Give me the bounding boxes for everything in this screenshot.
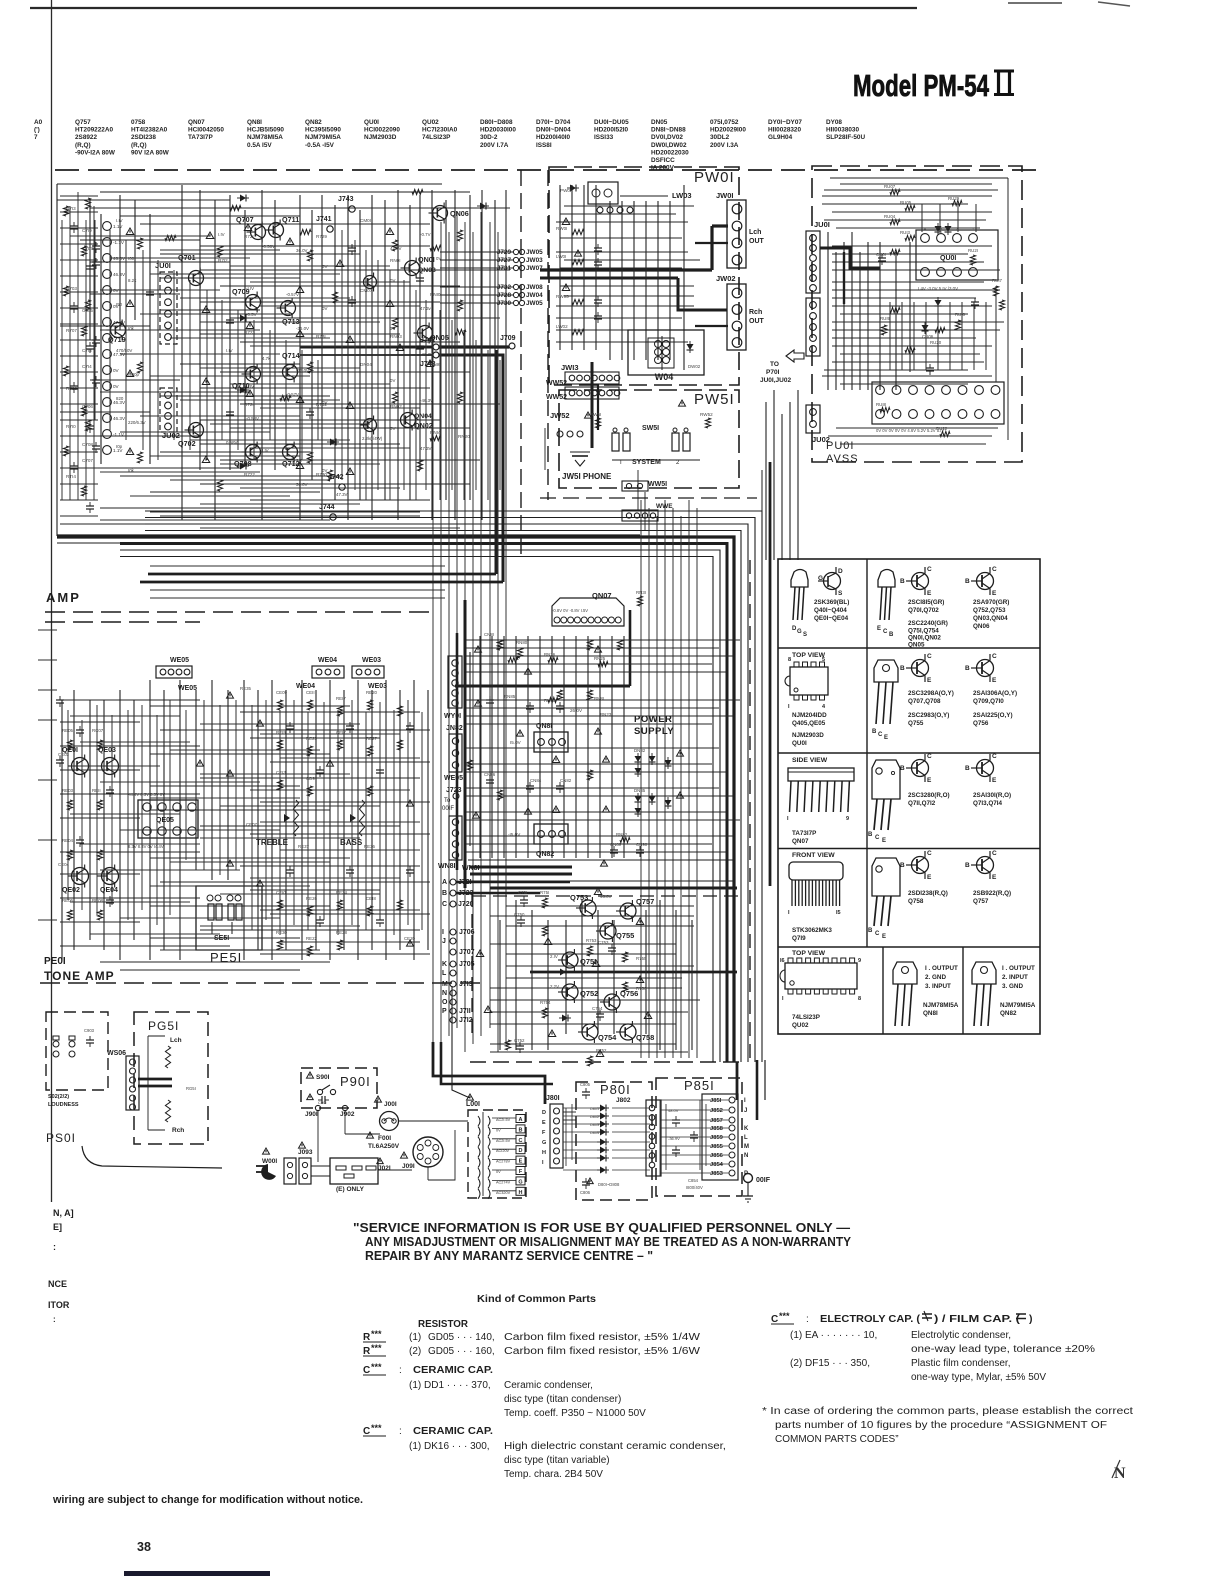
svg-text:8.3V 8.3V 0V I4.4V: 8.3V 8.3V 0V I4.4V [128, 844, 164, 849]
svg-text:C7I9: C7I9 [82, 228, 92, 233]
transistor Q709 [232, 287, 261, 313]
svg-text:Lch: Lch [749, 229, 761, 236]
connector JN82 [444, 725, 463, 782]
svg-text::: : [399, 1365, 402, 1376]
svg-text::: : [53, 1242, 56, 1252]
svg-text:RE06: RE06 [62, 898, 74, 903]
svg-text:Q719: Q719 [108, 335, 126, 344]
svg-text:90V I2A 80W: 90V I2A 80W [131, 149, 170, 156]
svg-text:Temp. chara. 2B4 50V: Temp. chara. 2B4 50V [504, 1469, 603, 1480]
plug W001 [256, 1148, 296, 1184]
table component pinouts border [778, 559, 1040, 1034]
svg-text:DW02: DW02 [688, 364, 701, 369]
svg-text:RTI4: RTI4 [66, 474, 76, 479]
svg-text:2SDI238(R,Q): 2SDI238(R,Q) [908, 890, 948, 897]
connector JW13 [561, 362, 620, 448]
svg-text:R723: R723 [244, 330, 255, 335]
svg-text:RUI9: RUI9 [880, 316, 891, 321]
connector J093 [298, 1142, 313, 1184]
connector J728 JW04 [440, 292, 543, 299]
package STK3062 module [788, 852, 843, 942]
common parts heading [477, 1293, 596, 1305]
transistor Q712 [279, 442, 300, 469]
transistor QN05 [414, 323, 449, 344]
svg-text:Q7II,Q7I2: Q7II,Q7I2 [908, 800, 936, 807]
test point J747 [420, 337, 439, 350]
svg-text:I0k: I0k [128, 326, 135, 331]
svg-text:CERAMIC CAP.: CERAMIC CAP. [413, 1364, 493, 1376]
svg-text:C: C [875, 835, 880, 841]
ordering note text [762, 1406, 1133, 1445]
svg-text:RE03: RE03 [62, 788, 74, 793]
svg-text:Lch: Lch [170, 1037, 182, 1044]
svg-text:J744: J744 [319, 504, 335, 511]
test point J742 [328, 474, 345, 490]
svg-text:J727: J727 [497, 257, 512, 264]
svg-text:NJM204IDD: NJM204IDD [792, 712, 827, 719]
svg-text:E: E [882, 934, 886, 940]
svg-text:DN04: DN04 [360, 362, 372, 367]
svg-text:C750: C750 [514, 912, 525, 917]
svg-text:47.3v: 47.3v [420, 306, 432, 311]
svg-text:S90I: S90I [316, 1074, 330, 1081]
transistor QN02 [397, 410, 433, 431]
wire PW01 interior [556, 185, 700, 370]
svg-text:Plastic film condenser,: Plastic film condenser, [911, 1358, 1011, 1369]
ic QE05 [128, 792, 198, 849]
svg-text:C7I4: C7I4 [82, 364, 92, 369]
svg-text:Q753: Q753 [570, 893, 588, 902]
svg-text:(R,Q): (R,Q) [131, 142, 147, 149]
svg-text:JU02: JU02 [812, 435, 830, 444]
svg-text:Ceramic condenser,: Ceramic condenser, [504, 1380, 593, 1391]
svg-text:E: E [882, 838, 886, 844]
svg-text:C: C [927, 850, 932, 857]
transistor QN0I [401, 255, 435, 279]
svg-text:DN05: DN05 [651, 119, 668, 126]
svg-text:one-way lead type, tolerance: one-way lead type, tolerance ±20% [911, 1344, 1095, 1355]
svg-text:LW02: LW02 [556, 324, 568, 329]
svg-text:HD20030I00: HD20030I00 [480, 127, 516, 134]
wire amp verticals dashed borders [57, 170, 548, 558]
svg-text:CEI7: CEI7 [336, 730, 346, 735]
transistor QN03 [360, 267, 436, 292]
svg-text:QN82: QN82 [1000, 1010, 1017, 1017]
svg-text:JN82: JN82 [446, 725, 463, 732]
svg-text:RN26: RN26 [544, 652, 556, 657]
svg-text:JW02: JW02 [716, 274, 736, 283]
svg-text:-0.7V: -0.7V [420, 232, 431, 237]
svg-text:0V: 0V [113, 384, 120, 389]
test point J741 [316, 216, 333, 232]
svg-text:48.0V: 48.0V [668, 1108, 679, 1113]
svg-text:B: B [519, 1127, 523, 1133]
svg-text:J02I: J02I [378, 1165, 391, 1172]
connector J727 JW03 [440, 257, 543, 264]
svg-text:one-way type, Mylar, ±5% 50V: one-way type, Mylar, ±5% 50V [911, 1372, 1046, 1383]
svg-text:B: B [900, 862, 905, 869]
svg-text:AC2I.5V: AC2I.5V [496, 1139, 511, 1143]
svg-text:A: A [519, 1117, 523, 1123]
svg-text:NCE: NCE [48, 1279, 67, 1289]
svg-text:HD200I40I0: HD200I40I0 [536, 134, 571, 141]
svg-text:QE04: QE04 [100, 887, 118, 894]
svg-text:RN03: RN03 [390, 334, 402, 339]
svg-text:HD20029I00: HD20029I00 [710, 127, 746, 134]
svg-text:B: B [889, 632, 894, 638]
svg-text:E: E [884, 735, 888, 741]
svg-text:B: B [965, 765, 970, 772]
svg-text:C: C [992, 850, 997, 857]
transistor QE04 [98, 865, 119, 895]
symbol 2SA970 [965, 566, 1009, 630]
svg-text:RN3I: RN3I [636, 590, 646, 595]
svg-text:RN20: RN20 [458, 434, 470, 439]
connector WS06 [107, 1050, 172, 1110]
svg-text:0758: 0758 [131, 119, 146, 126]
svg-text:N: N [442, 990, 447, 997]
svg-text:E: E [992, 677, 997, 684]
svg-text:Q707,Q708: Q707,Q708 [908, 698, 941, 705]
transistor Q707 [236, 215, 266, 243]
transistor Q755 [596, 920, 634, 942]
svg-text:RE24: RE24 [336, 890, 348, 895]
svg-text:R724: R724 [244, 402, 255, 407]
block P901 [301, 1068, 377, 1118]
svg-text:I0k: I0k [128, 468, 135, 473]
svg-text:0V: 0V [322, 264, 327, 269]
svg-text:DN85: DN85 [634, 788, 646, 793]
svg-text:D70I~ D704: D70I~ D704 [536, 119, 571, 126]
svg-text:0V: 0V [496, 1170, 501, 1174]
svg-text:2SA970(GR): 2SA970(GR) [973, 599, 1009, 606]
svg-text:QU0I: QU0I [940, 255, 956, 262]
svg-text:BASS: BASS [340, 838, 363, 847]
svg-text:C: C [878, 732, 883, 738]
svg-text:RE08: RE08 [92, 898, 104, 903]
svg-text:PS0I: PS0I [46, 1131, 76, 1145]
package 2SC3298 TO-220 [872, 653, 954, 741]
svg-text:AMP: AMP [46, 590, 81, 605]
svg-text:RE27: RE27 [366, 736, 378, 741]
connector J706 group [442, 929, 475, 1024]
svg-text:RW5I: RW5I [590, 412, 601, 417]
svg-text:R707: R707 [66, 328, 77, 333]
svg-text:ACI20V: ACI20V [496, 1149, 510, 1153]
svg-text:-0.5V: -0.5V [246, 312, 257, 317]
svg-text:WN8I: WN8I [438, 863, 456, 870]
svg-text:Q714: Q714 [282, 351, 300, 360]
package 2SK369 TO-92 [791, 567, 849, 638]
svg-text:G: G [818, 575, 823, 582]
svg-text:OUT: OUT [749, 238, 765, 245]
svg-text:CE09: CE09 [276, 690, 288, 695]
svg-text:5: 5 [822, 657, 825, 663]
svg-text:D: D [838, 568, 843, 575]
symbol 2SA1301 [965, 753, 1011, 807]
svg-text:QN07: QN07 [792, 838, 809, 845]
svg-text:2SAI30I(R,O): 2SAI30I(R,O) [973, 792, 1011, 799]
svg-text:CN90: CN90 [636, 842, 648, 847]
svg-text:0V: 0V [390, 326, 395, 331]
regulator QN82 [508, 806, 568, 858]
svg-text:Rch: Rch [172, 1127, 184, 1134]
svg-text:HD20022030: HD20022030 [651, 149, 689, 156]
svg-text:2.2: 2.2 [296, 458, 303, 463]
svg-text:I6: I6 [780, 958, 785, 964]
connector JU01 [155, 261, 177, 344]
svg-text:2SC2983(O,Y): 2SC2983(O,Y) [908, 712, 949, 719]
svg-text:AC278V: AC278V [496, 1160, 511, 1164]
op-amp QU01 [916, 226, 998, 291]
transistor Q753 [570, 893, 596, 919]
svg-text:Q758: Q758 [636, 1033, 654, 1042]
transistor Q758 [616, 1021, 654, 1043]
svg-text:RN23: RN23 [600, 712, 612, 717]
block P851 [656, 1078, 749, 1196]
svg-text:ANY MISADJUSTMENT OR MISALIGNM: ANY MISADJUSTMENT OR MISALIGNMENT MAY BE… [365, 1235, 852, 1249]
svg-text:QN0I,QN02: QN0I,QN02 [908, 635, 941, 642]
svg-text:J730: J730 [497, 300, 512, 307]
svg-text:QE02: QE02 [62, 887, 80, 894]
svg-text:RUI3: RUI3 [900, 230, 911, 235]
svg-text:disc type (titan variable): disc type (titan variable) [504, 1455, 610, 1466]
transistor Q701 [178, 253, 204, 289]
transistor Q711 [265, 215, 300, 241]
wire dashed top border [55, 169, 1040, 171]
svg-text:8.2k: 8.2k [128, 278, 137, 283]
svg-text:E: E [927, 677, 932, 684]
svg-text:wiring are subject to change f: wiring are subject to change for modific… [52, 1494, 363, 1506]
svg-text:***: *** [371, 1329, 382, 1339]
svg-text:PE0I: PE0I [44, 956, 66, 967]
svg-text:PU0I: PU0I [826, 440, 854, 452]
svg-text:R753: R753 [586, 938, 597, 943]
connector JW02 [716, 274, 765, 350]
transistor QE03 [98, 747, 119, 778]
package 2SC1815 TO-92 [877, 566, 948, 649]
svg-text:WE04: WE04 [318, 657, 337, 664]
svg-text:AVSS: AVSS [826, 453, 859, 465]
svg-text:J731: J731 [497, 265, 512, 272]
connector J729 JW05 [440, 249, 543, 256]
svg-text:Q757: Q757 [973, 898, 989, 905]
svg-text:J743: J743 [338, 196, 354, 203]
svg-text:CN8I: CN8I [484, 632, 494, 637]
svg-text:R752: R752 [596, 1048, 607, 1053]
svg-text:(1) EA · · · · · · · 10,: (1) EA · · · · · · · 10, [790, 1330, 877, 1341]
wire amp left column extra [60, 192, 98, 516]
pot TREBLE [256, 800, 310, 849]
svg-text:0.58V: 0.58V [226, 440, 238, 445]
svg-text:470/50V: 470/50V [116, 348, 132, 353]
connector WN81 [438, 816, 480, 872]
svg-text:CN86: CN86 [484, 772, 496, 777]
wire nested bus L [57, 511, 762, 1062]
svg-text:QN06: QN06 [973, 623, 990, 630]
svg-text:B: B [868, 928, 873, 934]
connector WE05 [156, 657, 197, 692]
svg-text:NJM79MI5A: NJM79MI5A [305, 134, 341, 141]
svg-text:38: 38 [137, 1540, 151, 1554]
svg-text:I5: I5 [836, 910, 841, 916]
svg-text:TONE AMP: TONE AMP [44, 969, 115, 983]
svg-text:8: 8 [788, 657, 791, 663]
svg-text:30DL2: 30DL2 [710, 134, 730, 141]
label PE51 [210, 950, 242, 965]
svg-text:0V: 0V [390, 378, 395, 383]
svg-text:DY08: DY08 [826, 119, 842, 126]
svg-text:WE05: WE05 [170, 657, 189, 664]
svg-text:J856: J856 [710, 1153, 724, 1159]
svg-text:JW03: JW03 [526, 257, 543, 264]
svg-text:9: 9 [858, 958, 861, 964]
svg-text:OUT: OUT [749, 318, 765, 325]
svg-text:TOP VIEW: TOP VIEW [792, 652, 826, 659]
svg-text:RW05: RW05 [556, 294, 569, 299]
svg-text:Q7I9: Q7I9 [792, 935, 806, 942]
svg-text:HCJB5I5090: HCJB5I5090 [247, 127, 284, 134]
svg-text:C754: C754 [592, 1006, 603, 1011]
svg-text:R: R [363, 1346, 371, 1357]
svg-text:CU06: CU06 [922, 334, 934, 339]
svg-text:B: B [442, 890, 447, 897]
svg-text:RE30: RE30 [276, 930, 288, 935]
svg-text:R7I0: R7I0 [66, 424, 76, 429]
arrow TO P701 [760, 350, 804, 384]
svg-text:C708: C708 [82, 442, 93, 447]
svg-text:(R,Q): (R,Q) [75, 142, 91, 149]
svg-text:3. GND: 3. GND [1002, 983, 1023, 990]
svg-text:J854: J854 [710, 1162, 724, 1168]
connector JU01 pu [806, 220, 830, 356]
wire section border right [452, 560, 750, 1098]
svg-text:0V: 0V [390, 278, 395, 283]
svg-text:-90V-I2A 80W: -90V-I2A 80W [75, 149, 116, 156]
svg-text:36.0V: 36.0V [296, 482, 308, 487]
wire horizontal bus mid [140, 566, 737, 972]
transistor Q713 [277, 298, 300, 327]
svg-text:J7I2: J7I2 [459, 1017, 473, 1024]
svg-text:B: B [900, 665, 905, 672]
svg-text:Q405,QE05: Q405,QE05 [792, 720, 826, 727]
svg-text:WY0I: WY0I [444, 713, 461, 720]
svg-text:B: B [965, 665, 970, 672]
svg-text:JW0I: JW0I [716, 191, 734, 200]
connector input strip [101, 214, 150, 464]
svg-text:47.3V: 47.3V [390, 246, 402, 251]
svg-text:0V: 0V [322, 400, 327, 405]
svg-text:ISSI33: ISSI33 [594, 134, 614, 141]
svg-text:QU0I: QU0I [792, 740, 807, 747]
svg-text:HC7I230IA0: HC7I230IA0 [422, 127, 458, 134]
svg-text:I50: I50 [116, 302, 123, 307]
svg-text:R75I: R75I [540, 890, 549, 895]
package NJM2041 DIP8 [785, 652, 828, 747]
svg-text:PE5I: PE5I [210, 950, 242, 965]
svg-text:Q70I,Q702: Q70I,Q702 [908, 607, 939, 614]
svg-text:-0.57V: -0.57V [286, 292, 299, 297]
test point J748 [420, 352, 439, 368]
svg-text:-0.5A -I5V: -0.5A -I5V [305, 142, 335, 149]
svg-text:-0.58V: -0.58V [262, 244, 275, 249]
svg-text:TOP VIEW: TOP VIEW [792, 950, 826, 957]
svg-text:E: E [927, 590, 932, 597]
svg-text:) / FILM CAP. (: ) / FILM CAP. ( [934, 1313, 1021, 1325]
svg-text:-0.58V: -0.58V [246, 416, 259, 421]
connector JW52 [545, 411, 583, 470]
svg-text::: : [806, 1314, 809, 1325]
svg-text:RNI6: RNI6 [430, 362, 441, 367]
transformer W04 [628, 330, 704, 382]
svg-text:C: C [927, 653, 932, 660]
svg-text:Q754: Q754 [598, 1033, 617, 1042]
svg-text:D: D [519, 1148, 523, 1154]
svg-text:HII0028320: HII0028320 [768, 127, 801, 134]
wire tone texture [56, 680, 430, 970]
svg-text:RW52: RW52 [700, 412, 713, 417]
svg-text:DV0I,DV02: DV0I,DV02 [651, 134, 683, 141]
connector WW51 [622, 481, 667, 491]
transistor QE0I [62, 747, 89, 778]
svg-text:CEII: CEII [306, 690, 315, 695]
svg-text:N, A]: N, A] [53, 1208, 74, 1218]
svg-text:-47.3V: -47.3V [420, 352, 433, 357]
svg-text:Carbon film fixed resistor, ±: Carbon film fixed resistor, ±5% 1/6W [504, 1346, 701, 1357]
svg-text:RU04: RU04 [884, 214, 896, 219]
svg-text:QU02: QU02 [422, 119, 439, 126]
symbol 2SB922 [965, 850, 1011, 905]
svg-text:WW52: WW52 [546, 380, 567, 387]
svg-text:(2) DF15 · · · 350,: (2) DF15 · · · 350, [790, 1358, 870, 1369]
svg-text:WE03: WE03 [362, 657, 381, 664]
svg-text:ELECTROLY CAP. (: ELECTROLY CAP. ( [820, 1313, 921, 1325]
wire power supply interior [455, 610, 740, 866]
svg-text:JWI3: JWI3 [561, 363, 579, 372]
svg-text:NJM2903D: NJM2903D [364, 134, 397, 141]
svg-text:QN8I: QN8I [923, 1010, 938, 1017]
wire amp texture [57, 185, 510, 528]
wire right of PW01 [762, 390, 798, 886]
transistor Q75I [558, 949, 596, 971]
svg-text:S: S [803, 632, 807, 638]
svg-text:('): (') [34, 127, 40, 134]
op-amp QU02 row [872, 382, 1004, 433]
svg-text:WE04: WE04 [296, 683, 315, 690]
svg-text:2SB922(R,Q): 2SB922(R,Q) [973, 890, 1011, 897]
connector J721 J723 J720 [442, 879, 570, 908]
package 74LS123 DIP16 [780, 950, 861, 1029]
svg-text:N: N [744, 1153, 748, 1159]
svg-text:J852: J852 [710, 1108, 723, 1114]
svg-text:L: L [744, 1135, 748, 1141]
wire amp components [66, 189, 489, 491]
svg-text:C: C [992, 566, 997, 573]
svg-text:47.3V: 47.3V [420, 446, 432, 451]
svg-text:B: B [900, 578, 905, 585]
svg-text:RG5I: RG5I [186, 1086, 196, 1091]
svg-text:J00I: J00I [384, 1101, 397, 1108]
svg-text:J: J [442, 938, 446, 945]
block loudness [46, 1012, 108, 1108]
svg-text:0.5A I5V: 0.5A I5V [247, 142, 272, 149]
wire bottom left curves [38, 560, 222, 1168]
svg-text:P70I: P70I [766, 369, 780, 376]
svg-text:LW0I: LW0I [556, 254, 566, 259]
svg-text:4.7k: 4.7k [262, 356, 271, 361]
svg-text:C: C [927, 566, 932, 573]
transistor Q719 [107, 320, 126, 345]
